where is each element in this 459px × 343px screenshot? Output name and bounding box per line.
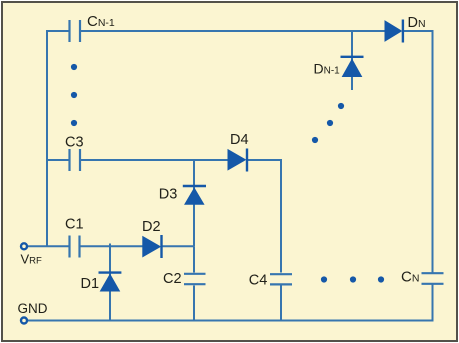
- svg-text:CN: CN: [401, 269, 419, 286]
- wire C3 to D4 anode: [80, 159, 228, 161]
- terminal GND: [21, 318, 27, 324]
- wire right rail upper (to CN top plate): [432, 30, 434, 273]
- wire right rail lower (CN bottom to bottom wire): [432, 284, 434, 320]
- svg-text:VRF: VRF: [21, 252, 43, 267]
- svg-text:D1: D1: [81, 276, 100, 292]
- svg-text:DN-1: DN-1: [314, 61, 341, 77]
- capacitor CN: [422, 273, 444, 284]
- dots vertical ellipsis: [71, 64, 77, 126]
- wire top segment CN-1 to DN anode: [81, 30, 385, 32]
- capacitor C2: [184, 274, 206, 284]
- wire C2 branch lower: [193, 286, 195, 321]
- terminal VRF: [21, 243, 27, 249]
- wire DN cathode to top-right corner: [403, 30, 434, 32]
- svg-text:GND: GND: [18, 301, 48, 316]
- svg-text:CN-1: CN-1: [87, 13, 115, 30]
- diode DN-1: [341, 57, 364, 77]
- svg-text:D4: D4: [230, 132, 249, 148]
- wire top segment left of CN-1: [46, 30, 69, 32]
- wire left rail: [46, 31, 48, 246]
- svg-text:D2: D2: [142, 219, 161, 235]
- wire D3 branch: [193, 160, 195, 246]
- svg-text:C4: C4: [249, 273, 268, 289]
- dots horizontal ellipsis: [321, 276, 384, 282]
- svg-text:DN: DN: [408, 15, 426, 31]
- svg-text:C3: C3: [65, 135, 84, 151]
- diode D4: [228, 149, 247, 172]
- wire C2 branch upper: [193, 246, 195, 272]
- wire C3 row left segment: [47, 159, 69, 161]
- diode D2: [143, 235, 162, 258]
- capacitor CN-1: [70, 20, 81, 42]
- diode D1: [99, 273, 122, 291]
- dots diagonal ellipsis: [312, 103, 344, 143]
- svg-text:C2: C2: [163, 271, 182, 287]
- wire VRF terminal to C1: [28, 245, 69, 247]
- svg-text:C1: C1: [65, 217, 84, 233]
- capacitor C4: [270, 274, 292, 284]
- wire DN-1 branch: [351, 31, 353, 90]
- wire C4 bottom to bottom rail: [280, 286, 282, 321]
- wire D1 branch: [109, 244, 111, 321]
- svg-text:D3: D3: [159, 187, 178, 203]
- wire C1 to D2 anode: [80, 245, 143, 247]
- diode D3: [183, 186, 206, 204]
- capacitor C3: [70, 149, 81, 171]
- wire D2 cathode to node x194: [162, 245, 195, 247]
- wire D4 cathode to corner and down to C4: [247, 160, 281, 273]
- capacitor C1: [70, 236, 80, 258]
- wire bottom rail: [28, 320, 434, 322]
- diode DN: [385, 20, 403, 43]
